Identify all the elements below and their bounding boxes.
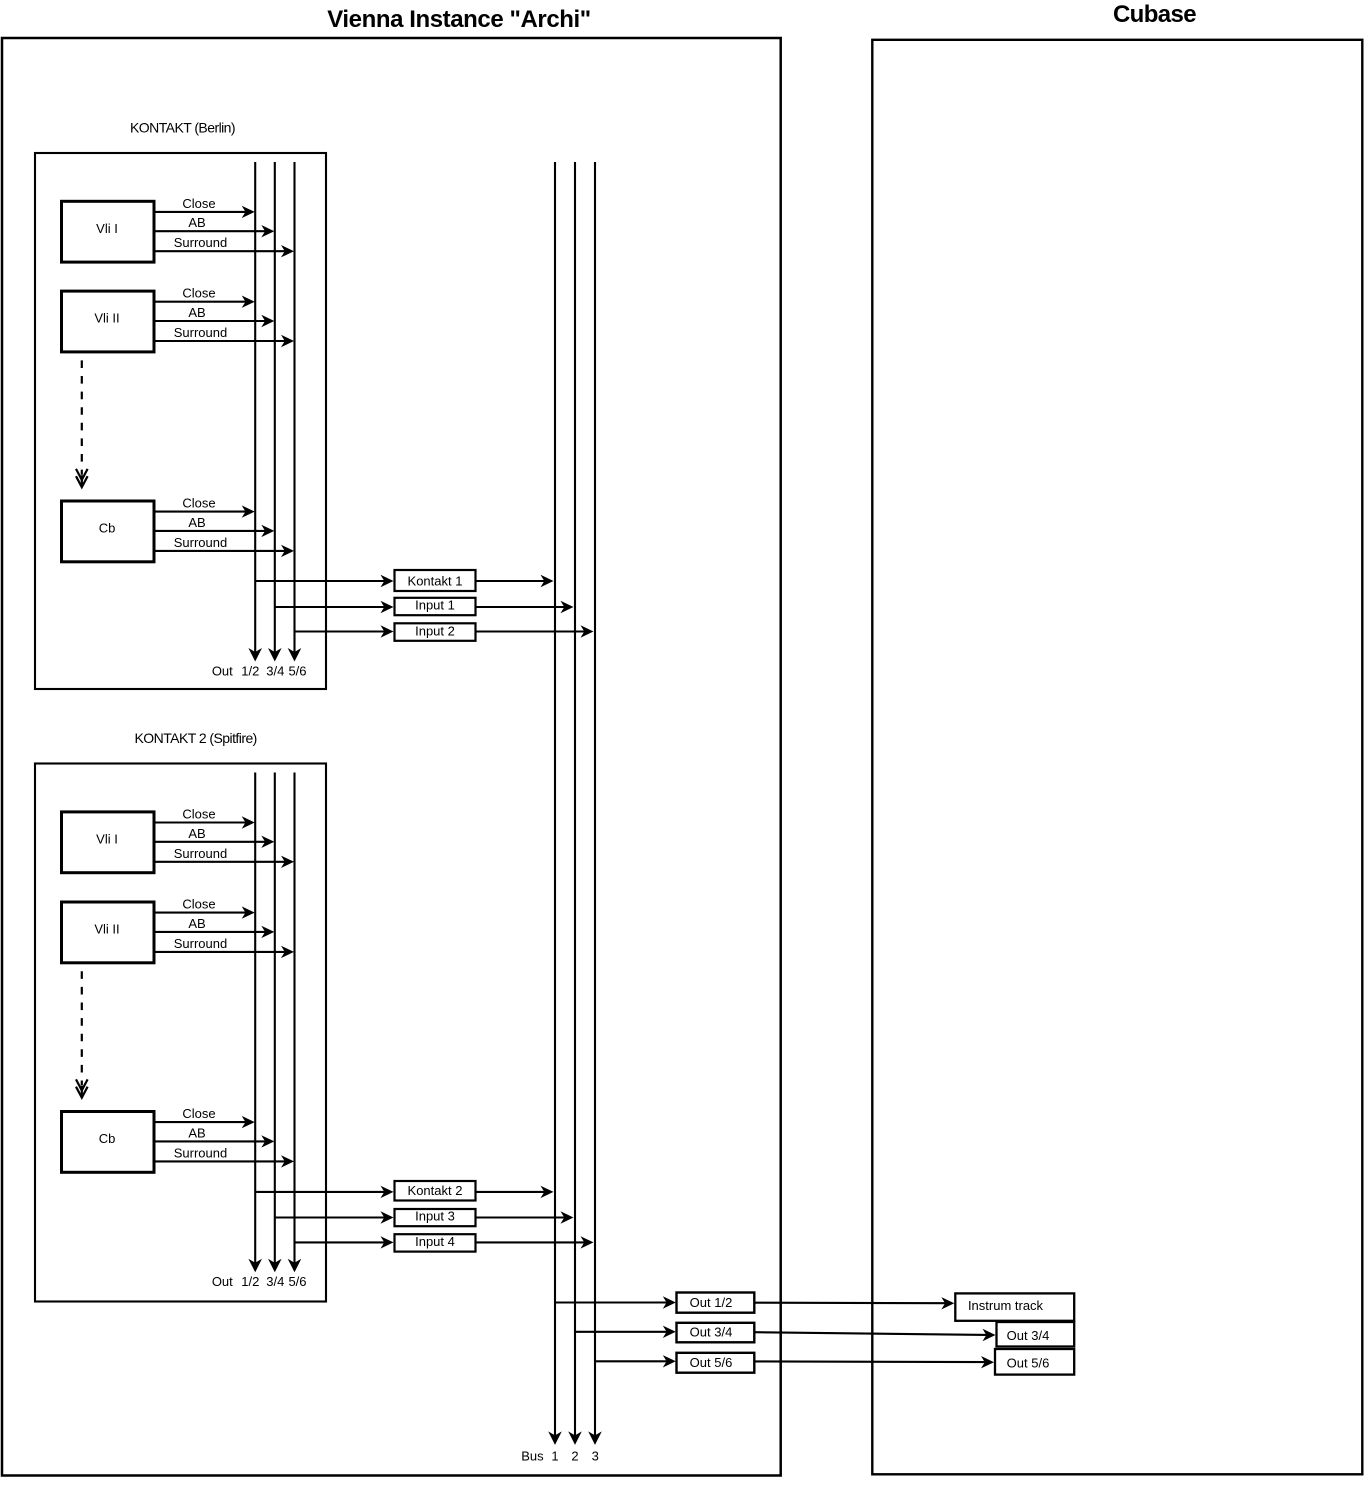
svg-text:Input 3: Input 3 (415, 1209, 455, 1224)
svg-text:Close: Close (182, 807, 215, 822)
svg-text:Surround: Surround (174, 535, 227, 550)
wire: KONTAKT (Berlin) Vli I AB arrow (154, 230, 266, 232)
wire: bus 2 vertical line (574, 162, 576, 1436)
node: Vienna Out 3/4 box (677, 1323, 755, 1343)
svg-text:Vienna Instance "Archi": Vienna Instance "Archi" (327, 6, 590, 33)
svg-text:3/4: 3/4 (266, 1274, 284, 1289)
wire: KONTAKT 2 (Spitfire) Input 4 output arrow to bus 3 (476, 1241, 585, 1243)
group box: KONTAKT 2 (Spitfire) (35, 764, 326, 1302)
svg-text:1/2: 1/2 (241, 664, 259, 679)
svg-text:Vli II: Vli II (94, 922, 119, 937)
wire: KONTAKT (Berlin) Cb AB arrow (154, 530, 266, 532)
block: KONTAKT (Berlin) Vli II (62, 291, 155, 352)
svg-text:Instrum track: Instrum track (968, 1298, 1044, 1313)
wire: KONTAKT 2 (Spitfire) Vli I Surround arrow (154, 861, 286, 863)
node: KONTAKT (Berlin) Input 1 box (395, 598, 476, 615)
wire: KONTAKT (Berlin) Vli I Close arrow (154, 211, 246, 213)
wire: bus branch to Out 1/2 box (555, 1301, 667, 1303)
svg-text:KONTAKT (Berlin): KONTAKT (Berlin) (130, 120, 235, 136)
svg-text:Close: Close (182, 286, 215, 301)
svg-text:Close: Close (182, 196, 215, 211)
svg-text:Surround: Surround (174, 846, 227, 861)
wire: KONTAKT (Berlin) Cb Surround arrow (154, 550, 286, 552)
wire: KONTAKT 2 (Spitfire) Input 4 input arrow from Out 5/6 line (295, 1241, 385, 1243)
wire: KONTAKT 2 (Spitfire) Input 3 output arrow to bus 2 (476, 1216, 565, 1218)
wire: KONTAKT (Berlin) Out 5/6 vertical line (293, 162, 295, 653)
svg-text:Close: Close (182, 897, 215, 912)
svg-text:Surround: Surround (174, 235, 227, 250)
svg-text:Out 5/6: Out 5/6 (690, 1355, 733, 1370)
block: KONTAKT 2 (Spitfire) Vli I (62, 812, 155, 873)
wire: KONTAKT 2 (Spitfire) Out 3/4 vertical line (274, 773, 276, 1264)
svg-text:Out 1/2: Out 1/2 (690, 1295, 733, 1310)
wire: Out 5/6 to Cubase Out 5/6 (754, 1360, 985, 1363)
svg-text:Cb: Cb (99, 1131, 116, 1146)
svg-text:KONTAKT 2 (Spitfire): KONTAKT 2 (Spitfire) (135, 730, 257, 746)
wire: KONTAKT 2 (Spitfire) Vli II Surround arrow (154, 951, 286, 953)
wire: Out 1/2 to Instrum track (754, 1302, 945, 1305)
svg-text:AB: AB (188, 215, 205, 230)
svg-text:5/6: 5/6 (288, 1274, 306, 1289)
svg-text:Close: Close (182, 1106, 215, 1121)
svg-text:Surround: Surround (174, 1145, 227, 1160)
node: KONTAKT (Berlin) Kontakt 1 box (395, 570, 476, 591)
svg-text:Out 3/4: Out 3/4 (1007, 1328, 1050, 1343)
wire: KONTAKT 2 (Spitfire) Cb Close arrow (154, 1121, 246, 1123)
node: KONTAKT (Berlin) Input 2 box (395, 623, 476, 641)
outer box: Cubase (872, 40, 1362, 1475)
svg-text:3: 3 (592, 1449, 599, 1464)
node: KONTAKT 2 (Spitfire) Kontakt 2 box (395, 1181, 476, 1201)
svg-text:2: 2 (571, 1449, 578, 1464)
wire: bus 1 vertical line (554, 162, 556, 1436)
wire: KONTAKT (Berlin) Input 1 output arrow to bus 2 (476, 606, 565, 608)
wire: KONTAKT 2 (Spitfire) Cb Surround arrow (154, 1160, 286, 1162)
svg-text:AB: AB (188, 305, 205, 320)
wire: KONTAKT (Berlin) Kontakt 1 input arrow from Out 1/2 line (255, 580, 384, 582)
wire: bus branch to Out 5/6 box (595, 1360, 667, 1362)
svg-text:Bus: Bus (521, 1449, 544, 1464)
block: KONTAKT (Berlin) Cb (62, 501, 155, 562)
svg-text:Vli I: Vli I (96, 221, 118, 236)
node: Vienna Out 1/2 box (677, 1293, 755, 1313)
svg-text:Kontakt 1: Kontakt 1 (408, 574, 463, 589)
svg-text:Out 5/6: Out 5/6 (1007, 1356, 1050, 1371)
wire: KONTAKT 2 (Spitfire) Vli II Close arrow (154, 912, 246, 914)
svg-text:Out: Out (212, 664, 233, 679)
wire: KONTAKT (Berlin) Input 2 output arrow to bus 3 (476, 630, 585, 632)
wire: KONTAKT 2 (Spitfire) dashed continuation arrow (81, 971, 83, 1085)
svg-text:AB: AB (188, 1125, 205, 1140)
wire: Out 3/4 to Cubase Out 3/4 (754, 1332, 987, 1335)
wire: KONTAKT 2 (Spitfire) Out 1/2 vertical line (254, 773, 256, 1264)
block: KONTAKT (Berlin) Vli I (62, 201, 155, 262)
svg-text:Cb: Cb (99, 521, 116, 536)
wire: KONTAKT (Berlin) Out 3/4 vertical line (274, 162, 276, 653)
svg-text:Input 1: Input 1 (415, 598, 455, 613)
node: KONTAKT 2 (Spitfire) Input 4 box (395, 1234, 476, 1251)
svg-text:Input 4: Input 4 (415, 1234, 455, 1249)
wire: KONTAKT (Berlin) Vli II AB arrow (154, 320, 266, 322)
svg-text:Close: Close (182, 496, 215, 511)
node: Cubase Out 5/6 box (995, 1349, 1074, 1375)
node: KONTAKT 2 (Spitfire) Input 3 box (395, 1209, 476, 1226)
svg-text:AB: AB (188, 916, 205, 931)
wire: KONTAKT (Berlin) Input 2 input arrow from Out 5/6 line (295, 630, 385, 632)
wire: KONTAKT (Berlin) Out 1/2 vertical line (254, 162, 256, 653)
svg-text:1/2: 1/2 (241, 1274, 259, 1289)
svg-text:AB: AB (188, 515, 205, 530)
wire: KONTAKT (Berlin) Kontakt 1 output arrow to bus 1 (476, 580, 545, 582)
svg-text:AB: AB (188, 826, 205, 841)
svg-text:3/4: 3/4 (266, 664, 284, 679)
wire: KONTAKT (Berlin) Input 1 input arrow from Out 3/4 line (275, 606, 385, 608)
wire: KONTAKT 2 (Spitfire) Vli I Close arrow (154, 821, 246, 823)
block: KONTAKT 2 (Spitfire) Cb (62, 1112, 155, 1173)
wire: KONTAKT 2 (Spitfire) Kontakt 2 input arrow from Out 1/2 line (255, 1191, 384, 1193)
wire: KONTAKT (Berlin) Vli II Close arrow (154, 301, 246, 303)
group box: KONTAKT (Berlin) (35, 153, 326, 689)
wire: bus branch to Out 3/4 box (575, 1331, 667, 1333)
wire: KONTAKT 2 (Spitfire) Vli I AB arrow (154, 841, 266, 843)
wire: KONTAKT 2 (Spitfire) Cb AB arrow (154, 1140, 266, 1142)
node: Cubase Out 3/4 box (997, 1322, 1075, 1347)
wire: KONTAKT 2 (Spitfire) Input 3 input arrow from Out 3/4 line (275, 1216, 385, 1218)
svg-text:Cubase: Cubase (1113, 1, 1196, 28)
svg-text:1: 1 (551, 1449, 558, 1464)
block: KONTAKT 2 (Spitfire) Vli II (62, 902, 155, 963)
wire: bus 3 vertical line (594, 162, 596, 1436)
node: Vienna Out 5/6 box (677, 1353, 755, 1373)
node: Cubase Instrum track box (955, 1293, 1074, 1320)
svg-text:5/6: 5/6 (288, 664, 306, 679)
svg-text:Vli II: Vli II (94, 311, 119, 326)
wire: KONTAKT (Berlin) Vli I Surround arrow (154, 250, 286, 252)
svg-text:Input 2: Input 2 (415, 623, 455, 638)
wire: KONTAKT 2 (Spitfire) Kontakt 2 output arrow to bus 1 (476, 1191, 545, 1193)
svg-text:Surround: Surround (174, 325, 227, 340)
svg-text:Kontakt 2: Kontakt 2 (408, 1183, 463, 1198)
wire: KONTAKT (Berlin) dashed continuation arrow (81, 360, 83, 474)
wire: KONTAKT (Berlin) Cb Close arrow (154, 511, 246, 513)
wire: KONTAKT (Berlin) Vli II Surround arrow (154, 340, 286, 342)
svg-text:Surround: Surround (174, 936, 227, 951)
wire: KONTAKT 2 (Spitfire) Out 5/6 vertical line (293, 773, 295, 1264)
wire: KONTAKT 2 (Spitfire) Vli II AB arrow (154, 931, 266, 933)
svg-text:Out: Out (212, 1274, 233, 1289)
outer box: Vienna Instance (2, 38, 781, 1476)
svg-text:Vli I: Vli I (96, 831, 118, 846)
svg-text:Out 3/4: Out 3/4 (690, 1325, 733, 1340)
